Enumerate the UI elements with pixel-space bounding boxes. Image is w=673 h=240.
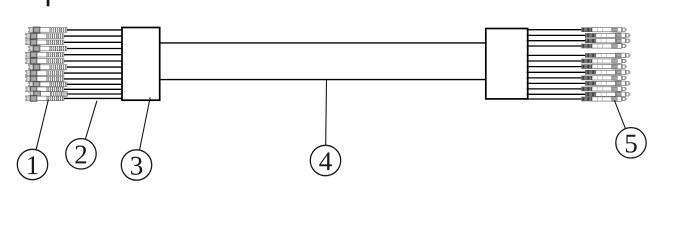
terminal socket contact S11 (item 5)	[582, 87, 627, 92]
terminal socket contact S2 (item 5)	[585, 33, 630, 38]
terminal socket contact S4 (item 5)	[582, 44, 627, 49]
terminal crimp pin T6 (item 1)	[25, 58, 64, 64]
terminal socket contact S3 (item 5)	[585, 38, 630, 43]
wire W9 (left pigtail 9)	[63, 78, 123, 80]
crop tick mark	[47, 0, 50, 6]
leader line for balloon 1	[33, 99, 49, 164]
leader line for balloon 4	[326, 80, 327, 161]
balloon callout 5	[616, 128, 646, 158]
leader line for balloon 2	[81, 101, 97, 154]
terminal crimp pin T7 (item 1)	[28, 64, 67, 70]
terminal crimp pin T8 (item 1)	[25, 70, 64, 76]
terminal socket contact S13 (item 5)	[582, 97, 627, 102]
right connector housing / boot	[486, 29, 528, 99]
balloon callout 3	[121, 150, 151, 180]
wire W6 (left pigtail 6)	[63, 60, 123, 62]
wire W22 (right pigtail 9)	[527, 77, 582, 79]
terminal socket contact S10 (item 5)	[585, 81, 630, 86]
wire W18 (right pigtail 5)	[527, 54, 586, 56]
terminal socket contact S1 (item 5)	[582, 27, 627, 32]
balloon callout 1	[17, 149, 47, 179]
terminal crimp pin T13 (item 1)	[25, 96, 64, 102]
terminal socket contact S7 (item 5)	[582, 64, 627, 69]
terminal socket contact S8 (item 5)	[585, 70, 630, 75]
wire W16 (right pigtail 3)	[527, 40, 586, 42]
wire W7 (left pigtail 7)	[66, 66, 123, 68]
terminal crimp pin T2 (item 1)	[25, 33, 64, 39]
terminal crimp pin T12 (item 1)	[29, 91, 68, 97]
wire W14 (right pigtail 1)	[527, 29, 582, 31]
wire W17 (right pigtail 4)	[527, 45, 582, 47]
wire W24 (right pigtail 11)	[527, 88, 582, 90]
terminal crimp pin T11 (item 1)	[25, 86, 64, 92]
leader line for balloon 5	[614, 100, 631, 143]
wire W11 (left pigtail 11)	[63, 88, 123, 90]
wire W2 (left pigtail 2)	[63, 35, 123, 37]
terminal crimp pin T10 (item 1)	[28, 81, 67, 87]
connector housing / boot (item 3)	[122, 28, 160, 101]
wire W5 (left pigtail 5)	[63, 54, 123, 56]
cable jacket (item 4)	[160, 43, 486, 80]
wire W12 (left pigtail 12)	[67, 93, 123, 95]
terminal socket contact S5 (item 5)	[585, 53, 630, 58]
wire W25 (right pigtail 12)	[527, 93, 586, 95]
wire W1 (left pigtail 1)	[66, 29, 123, 31]
terminal crimp pin T5 (item 1)	[25, 52, 64, 58]
terminal socket contact S6 (item 5)	[582, 59, 627, 64]
wire W21 (right pigtail 8)	[527, 71, 586, 73]
balloon callout 2	[66, 139, 96, 169]
terminal crimp pin T4 (item 1)	[28, 46, 67, 52]
wire W23 (right pigtail 10)	[527, 82, 586, 84]
terminal socket contact S12 (item 5)	[585, 92, 630, 97]
wire W26 (right pigtail 13)	[527, 98, 582, 100]
wire W15 (right pigtail 2)	[527, 34, 586, 36]
wire W19 (right pigtail 6)	[527, 60, 582, 62]
terminal crimp pin T3 (item 1)	[25, 39, 64, 45]
wire W4 (left pigtail 4)	[66, 48, 123, 50]
wire W10 (left pigtail 10)	[66, 83, 123, 85]
leader line for balloon 3	[137, 97, 151, 165]
wire W20 (right pigtail 7)	[527, 66, 582, 68]
wire W13 (left pigtail 13)	[63, 97, 123, 99]
terminal crimp pin T1 (item 1)	[28, 27, 67, 33]
terminal crimp pin T9 (item 1)	[25, 76, 64, 82]
wire W3 (left pigtail 3)	[63, 41, 123, 43]
balloon callout 4	[310, 145, 340, 175]
terminal socket contact S9 (item 5)	[582, 76, 627, 81]
wire W8 (left pigtail 8)	[63, 72, 123, 74]
